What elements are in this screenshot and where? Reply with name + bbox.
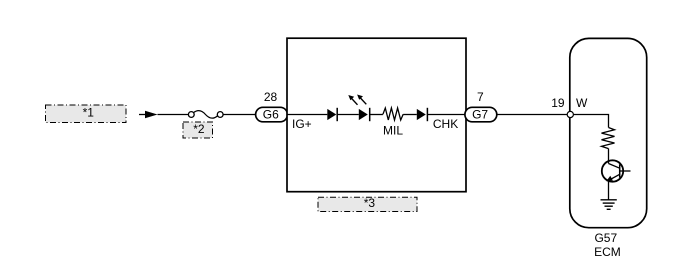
connector G6 xyxy=(256,107,288,122)
wire arrow to fuse xyxy=(158,114,189,116)
arrow (feed from power source) xyxy=(139,111,158,118)
placeholder box *1 (power source) xyxy=(46,105,127,123)
svg-text:W: W xyxy=(576,96,588,110)
wire node to internal resistor xyxy=(574,115,609,128)
wire G6 to diode D1 xyxy=(288,114,328,116)
wire resistor to diode D2 xyxy=(403,114,417,116)
connector G7 xyxy=(465,107,497,122)
svg-text:*1: *1 xyxy=(83,105,95,119)
node circle pin 19 xyxy=(567,111,573,117)
svg-text:G57: G57 xyxy=(594,231,617,245)
resistor (MIL bulb) xyxy=(383,108,403,120)
svg-text:*2: *2 xyxy=(193,122,205,136)
wire D2 to G7 xyxy=(427,114,465,116)
svg-text:7: 7 xyxy=(477,90,484,104)
diode D1 xyxy=(327,108,337,121)
diode D2 xyxy=(417,108,428,121)
svg-text:CHK: CHK xyxy=(433,117,458,131)
wire LED to resistor xyxy=(370,114,383,116)
svg-text:19: 19 xyxy=(551,96,565,110)
wire D1 to LED xyxy=(337,114,359,116)
placeholder box *3 (combination meter name) xyxy=(318,196,417,211)
fuse F1 xyxy=(188,111,223,119)
transistor Q1 (MIL driver) xyxy=(602,160,631,200)
svg-text:*3: *3 xyxy=(364,196,376,210)
LED (MIL lamp) xyxy=(348,95,369,122)
ground xyxy=(601,200,617,210)
placeholder box *2 (fuse name) xyxy=(183,122,213,138)
svg-text:ECM: ECM xyxy=(594,245,621,259)
wire G7 to ECM xyxy=(497,114,567,116)
combination meter box *3 xyxy=(287,38,466,192)
svg-text:IG+: IG+ xyxy=(292,117,312,131)
ECM box xyxy=(570,38,647,227)
internal resistor xyxy=(602,128,615,149)
wire fuse to G6 xyxy=(223,114,256,116)
svg-text:28: 28 xyxy=(264,90,278,104)
wire resistor to transistor xyxy=(608,149,610,162)
svg-text:G6: G6 xyxy=(263,108,279,122)
svg-text:G7: G7 xyxy=(472,108,488,122)
svg-text:MIL: MIL xyxy=(383,124,403,138)
